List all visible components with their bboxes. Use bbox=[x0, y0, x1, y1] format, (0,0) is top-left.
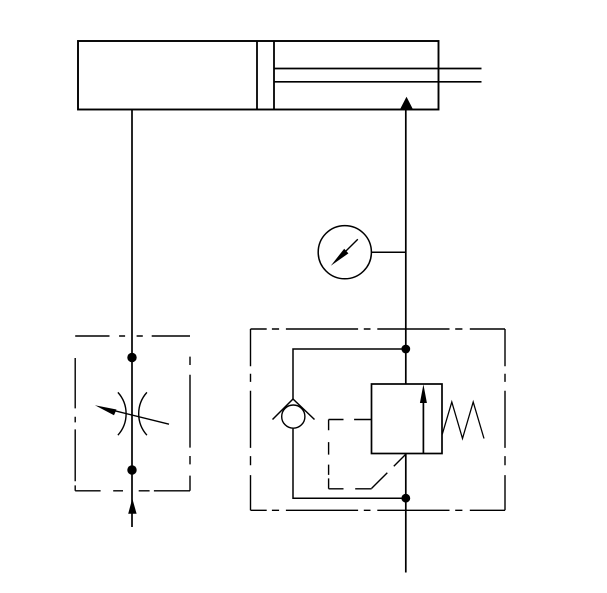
node junction lower bbox=[401, 494, 410, 503]
pilot line (dashed) bbox=[329, 420, 406, 489]
wire right port main line (lower) bbox=[405, 454, 407, 573]
relief valve enclosure (dash-dot) bbox=[251, 329, 506, 510]
node junction upper bbox=[401, 345, 410, 354]
adjustment arrow bbox=[114, 411, 169, 425]
spring bbox=[442, 402, 484, 439]
internal flow path bbox=[422, 399, 424, 454]
flow arrow into cylinder bbox=[400, 97, 413, 110]
check valve V1 ball bbox=[282, 405, 305, 428]
piston bbox=[256, 41, 258, 110]
wire check valve bottom bbox=[293, 429, 406, 499]
wire to check valve top bbox=[293, 349, 406, 399]
node bottom of flow control bbox=[127, 465, 136, 474]
wire left port bbox=[131, 110, 133, 528]
throttle arcs bbox=[118, 392, 126, 435]
cylinder body bbox=[78, 41, 439, 110]
piston rod bbox=[274, 68, 482, 70]
wire right port main line (upper) bbox=[405, 110, 407, 384]
relief valve body bbox=[372, 384, 443, 454]
wire gauge to main line bbox=[371, 251, 405, 253]
pressure gauge G1 bbox=[318, 226, 371, 279]
flow control valve enclosure (dash-dot) bbox=[75, 336, 190, 491]
check valve V1 seat bbox=[273, 399, 294, 420]
flow arrow below flow control bbox=[128, 499, 136, 514]
node top of flow control bbox=[127, 353, 136, 362]
